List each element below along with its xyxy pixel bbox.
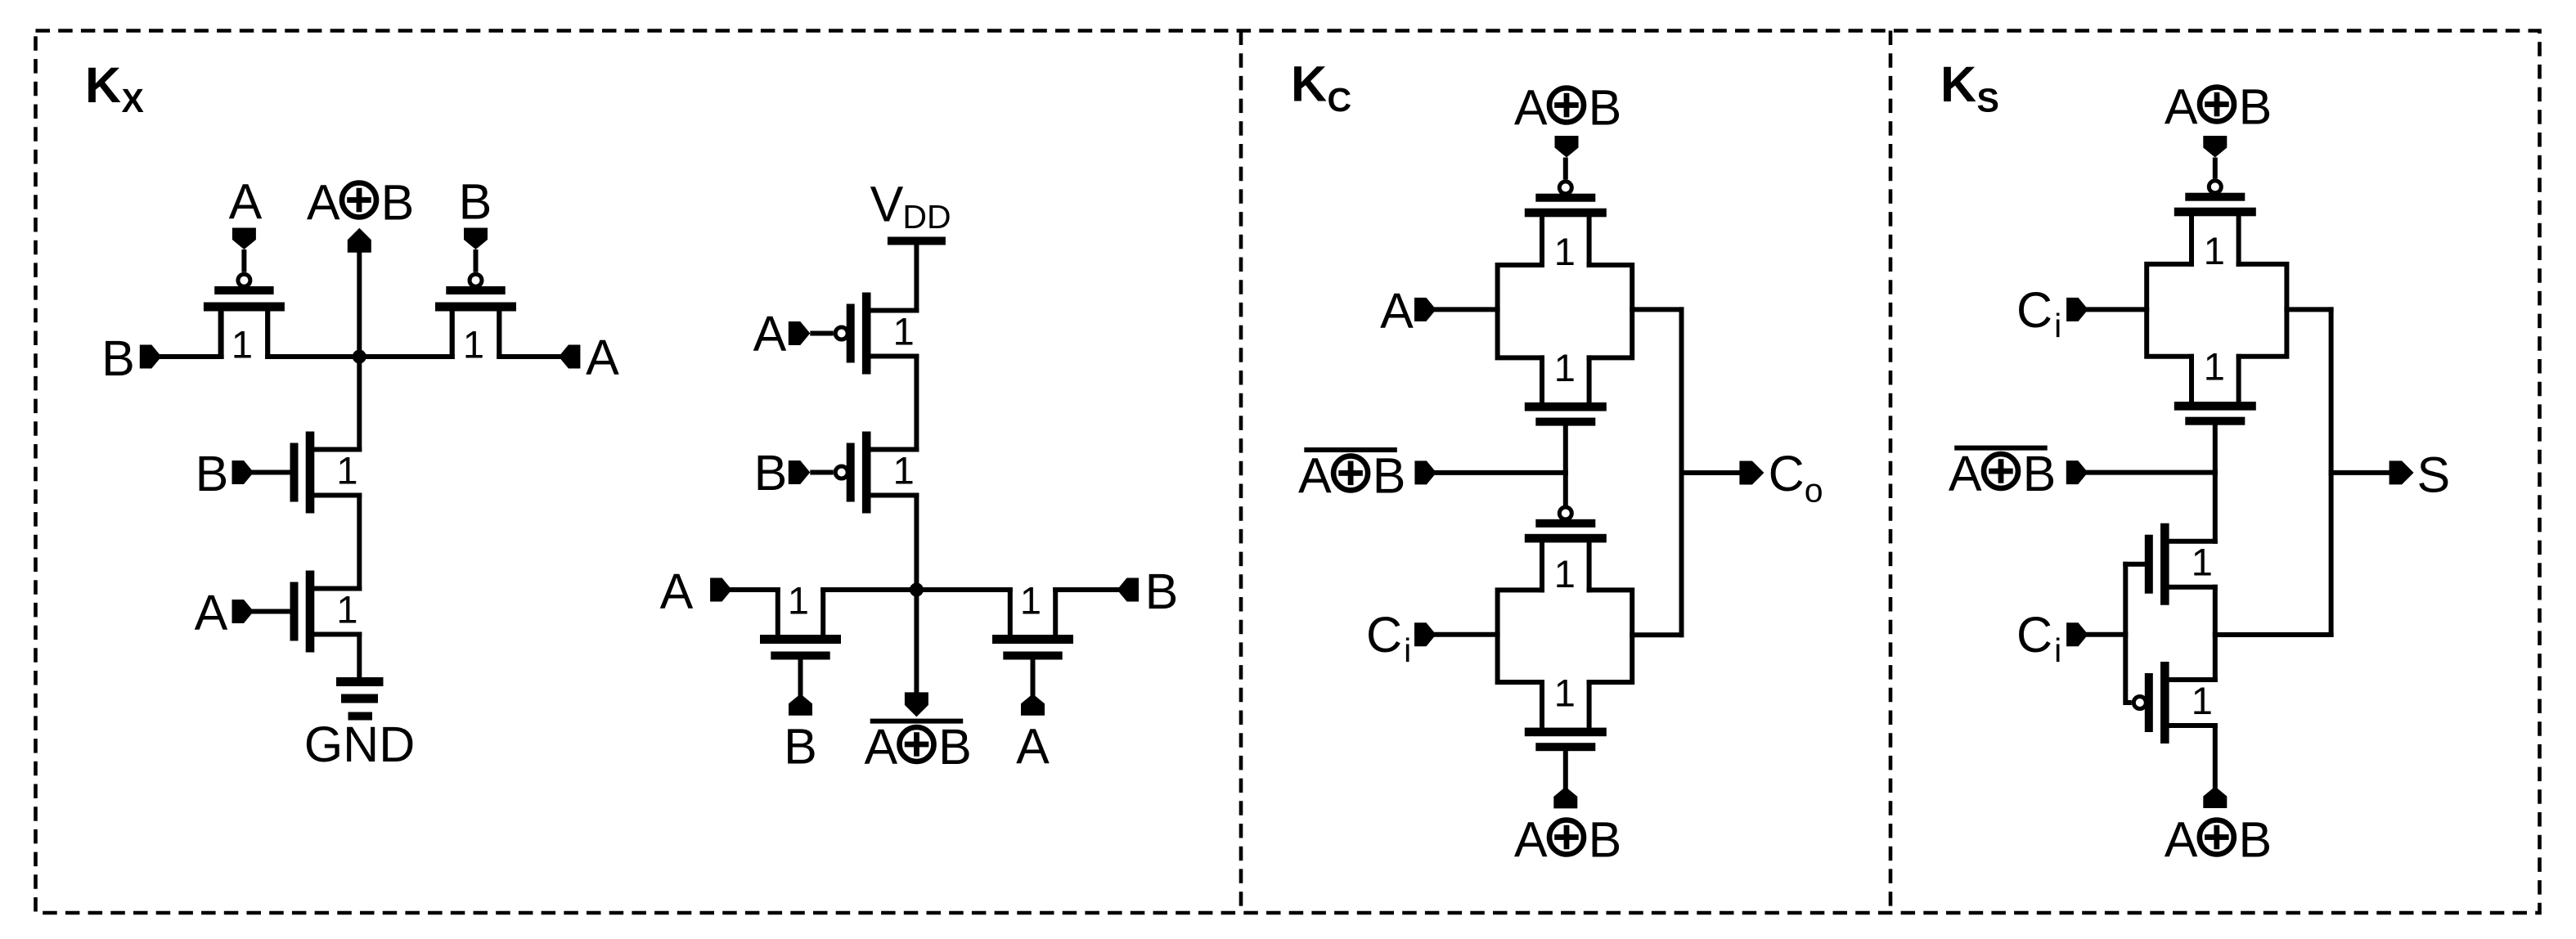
svg-text:C: C [1366, 607, 1402, 663]
wire [2088, 470, 2215, 475]
wire [219, 312, 224, 357]
svg-text:1: 1 [788, 579, 809, 622]
net label A XOR B [2165, 812, 2272, 868]
divider between KX and KC [1239, 31, 1243, 914]
input terminal B [789, 694, 812, 716]
svg-text:B: B [2238, 812, 2272, 868]
svg-text:1: 1 [2192, 679, 2213, 722]
input terminal A XOR B [1555, 136, 1579, 158]
output terminal A XOR B [348, 228, 371, 253]
svg-text:i: i [1404, 631, 1411, 669]
svg-text:A: A [229, 174, 263, 230]
net label NOT(A XOR B) [1949, 446, 2056, 501]
ground [336, 677, 384, 721]
divider between KC and KS [1889, 31, 1893, 914]
svg-text:1: 1 [336, 449, 357, 492]
svg-text:1: 1 [463, 323, 484, 366]
input terminal B [232, 461, 254, 484]
wire [914, 496, 919, 591]
wire [357, 496, 362, 589]
svg-text:B: B [784, 719, 817, 775]
wire output bus [1679, 309, 1684, 635]
wire [357, 357, 362, 450]
pmos pass transistor M1 (gate A) [204, 249, 285, 366]
net label A XOR B [2165, 79, 2272, 135]
svg-text:A: A [195, 585, 228, 640]
input terminal A [559, 345, 581, 369]
svg-text:C: C [2016, 282, 2052, 338]
wire [1540, 217, 1544, 265]
svg-text:A: A [660, 564, 694, 619]
wire [914, 590, 919, 692]
svg-text:B: B [1589, 812, 1622, 868]
svg-text:S: S [1977, 82, 1999, 119]
wire [2286, 307, 2331, 312]
wire [499, 354, 559, 359]
wire [267, 354, 452, 359]
input terminal A [232, 600, 254, 623]
input terminal B [464, 228, 488, 250]
wire [1563, 473, 1568, 504]
wire output bus [2329, 309, 2334, 635]
nmos pass transistor M10 (gate NOT(A XOR B)) [1525, 402, 1607, 473]
pmos pass transistor M13 (gate A XOR B) [2174, 158, 2256, 217]
nmos pass transistor M14 (gate NOT(A XOR B)) [2174, 402, 2256, 472]
wire [1436, 470, 1566, 475]
svg-text:A: A [864, 719, 897, 775]
VDD supply rail [888, 237, 946, 245]
svg-text:A: A [1949, 446, 1982, 501]
svg-text:A: A [1514, 80, 1548, 136]
svg-text:B: B [1589, 80, 1622, 136]
svg-text:1: 1 [336, 588, 357, 631]
input terminal A [789, 321, 811, 345]
input terminal B [789, 461, 811, 484]
input terminal B [140, 345, 162, 369]
pmos transistor M16 (gate Ci) [2125, 662, 2215, 744]
svg-text:B: B [2023, 446, 2057, 501]
input terminal A XOR B [2203, 787, 2227, 809]
input terminal NOT(A XOR B) [2066, 461, 2088, 484]
svg-text:1: 1 [893, 449, 915, 492]
wire [1540, 542, 1544, 590]
svg-text:i: i [2054, 307, 2061, 344]
net label A XOR B [307, 175, 414, 231]
wire [2239, 264, 2287, 357]
wire [2215, 632, 2331, 637]
wire [1540, 357, 1544, 402]
svg-text:C: C [1769, 446, 1805, 501]
pmos transistor M6 (gate B) [810, 432, 916, 514]
nmos transistor M3 (gate B) [254, 432, 359, 514]
pmos pass transistor M9 (gate A XOR B) [1525, 158, 1607, 218]
svg-text:1: 1 [2204, 229, 2225, 272]
wire [497, 312, 501, 357]
wire gate bus [2123, 564, 2128, 703]
wire [2147, 264, 2192, 357]
input terminal Ci [2066, 622, 2088, 646]
svg-text:V: V [870, 177, 904, 232]
wire [2213, 473, 2218, 541]
wire [914, 357, 919, 450]
svg-text:K: K [1940, 56, 1976, 112]
input terminal A [1021, 694, 1045, 716]
svg-text:A: A [586, 330, 619, 385]
wire [2213, 587, 2218, 680]
svg-text:1: 1 [1020, 579, 1041, 622]
wire [1632, 307, 1681, 312]
svg-text:1: 1 [1554, 552, 1576, 595]
wire [732, 587, 778, 592]
wire [1055, 587, 1117, 592]
net label Ci [2016, 282, 2061, 344]
svg-text:A: A [1298, 447, 1332, 503]
net label A XOR B [1514, 812, 1621, 868]
svg-text:B: B [459, 174, 492, 230]
wire [1498, 265, 1542, 357]
block title KC [1291, 56, 1351, 119]
nmos transistor M15 (gate Ci) [2125, 523, 2215, 605]
svg-text:A: A [307, 175, 340, 231]
wire [2189, 216, 2194, 264]
svg-text:A: A [2165, 79, 2198, 135]
svg-text:B: B [1145, 564, 1179, 619]
wire [1498, 590, 1542, 682]
wire [1682, 470, 1740, 475]
nmos pass transistor M12 (gate A XOR B) [1525, 728, 1607, 787]
net label NOT(A XOR B) [1298, 447, 1405, 503]
net label NOT(A XOR B) [864, 719, 971, 775]
wire [265, 312, 270, 357]
svg-text:B: B [101, 330, 135, 386]
wire [1589, 590, 1633, 682]
wire [2189, 357, 2194, 402]
input terminal NOT(A XOR B) [1414, 461, 1436, 484]
svg-text:1: 1 [1554, 672, 1576, 715]
output terminal S [2389, 461, 2414, 484]
power label VDD [870, 177, 951, 236]
input terminal A [232, 228, 256, 250]
svg-text:1: 1 [893, 310, 915, 353]
input terminal Ci [1414, 622, 1436, 646]
wire [2331, 470, 2389, 475]
block title KS [1940, 56, 1999, 119]
wire [1632, 632, 1681, 637]
wire [357, 635, 362, 678]
svg-text:B: B [196, 446, 229, 501]
junction node A XOR B [353, 350, 366, 364]
svg-text:1: 1 [1554, 346, 1576, 389]
net label Ci [2016, 607, 2061, 669]
nmos transistor M4 (gate A) [254, 571, 359, 653]
wire [823, 587, 1010, 592]
svg-text:GND: GND [304, 717, 416, 772]
input terminal Ci [2066, 298, 2088, 321]
svg-text:B: B [1373, 447, 1406, 503]
wire [1540, 682, 1544, 728]
svg-text:C: C [2016, 607, 2052, 663]
input terminal B [1117, 578, 1140, 602]
svg-text:B: B [938, 719, 972, 775]
wire [1436, 632, 1498, 637]
svg-text:B: B [2239, 79, 2273, 135]
svg-text:1: 1 [2204, 345, 2225, 389]
input terminal A XOR B [1553, 787, 1577, 809]
net label Co [1769, 446, 1823, 510]
svg-text:K: K [85, 57, 121, 113]
junction node NOT(A XOR B) [910, 583, 924, 597]
net label Ci [1366, 607, 1411, 669]
svg-text:1: 1 [1554, 230, 1576, 273]
wire [2213, 726, 2218, 787]
svg-text:K: K [1291, 56, 1327, 112]
wire [357, 253, 362, 357]
svg-text:B: B [754, 445, 788, 501]
svg-text:S: S [2416, 447, 2450, 503]
svg-text:A: A [753, 306, 787, 362]
wire [1589, 265, 1633, 357]
svg-text:C: C [1328, 81, 1352, 119]
pmos transistor M5 (gate A) [810, 293, 916, 375]
nmos pass transistor M7 (gate B) [760, 579, 841, 694]
wire [914, 245, 919, 311]
pmos pass transistor M2 (gate B) [435, 249, 516, 366]
input terminal A [710, 578, 732, 602]
svg-text:DD: DD [902, 198, 951, 236]
svg-text:A: A [1380, 283, 1414, 339]
wire [161, 354, 221, 359]
nmos pass transistor M8 (gate A) [992, 579, 1073, 694]
svg-text:i: i [2054, 631, 2061, 669]
wire [2088, 307, 2147, 312]
net label A XOR B [1514, 80, 1621, 136]
input terminal A [1414, 298, 1436, 321]
svg-text:B: B [381, 175, 415, 231]
svg-text:A: A [1016, 719, 1050, 775]
svg-text:1: 1 [232, 323, 253, 366]
input terminal A XOR B [2203, 136, 2227, 158]
svg-text:A: A [2165, 812, 2198, 868]
svg-text:1: 1 [2192, 541, 2213, 584]
svg-text:A: A [1514, 812, 1548, 868]
wire [1436, 307, 1498, 312]
output terminal Co [1739, 461, 1764, 485]
wire [450, 312, 455, 357]
wire [2088, 632, 2126, 637]
output terminal NOT(A XOR B) [905, 692, 928, 717]
block title KX [85, 57, 144, 119]
svg-text:o: o [1805, 472, 1823, 510]
pmos pass transistor M11 (gate NOT(A XOR B)) [1525, 507, 1607, 542]
svg-text:X: X [122, 82, 144, 119]
